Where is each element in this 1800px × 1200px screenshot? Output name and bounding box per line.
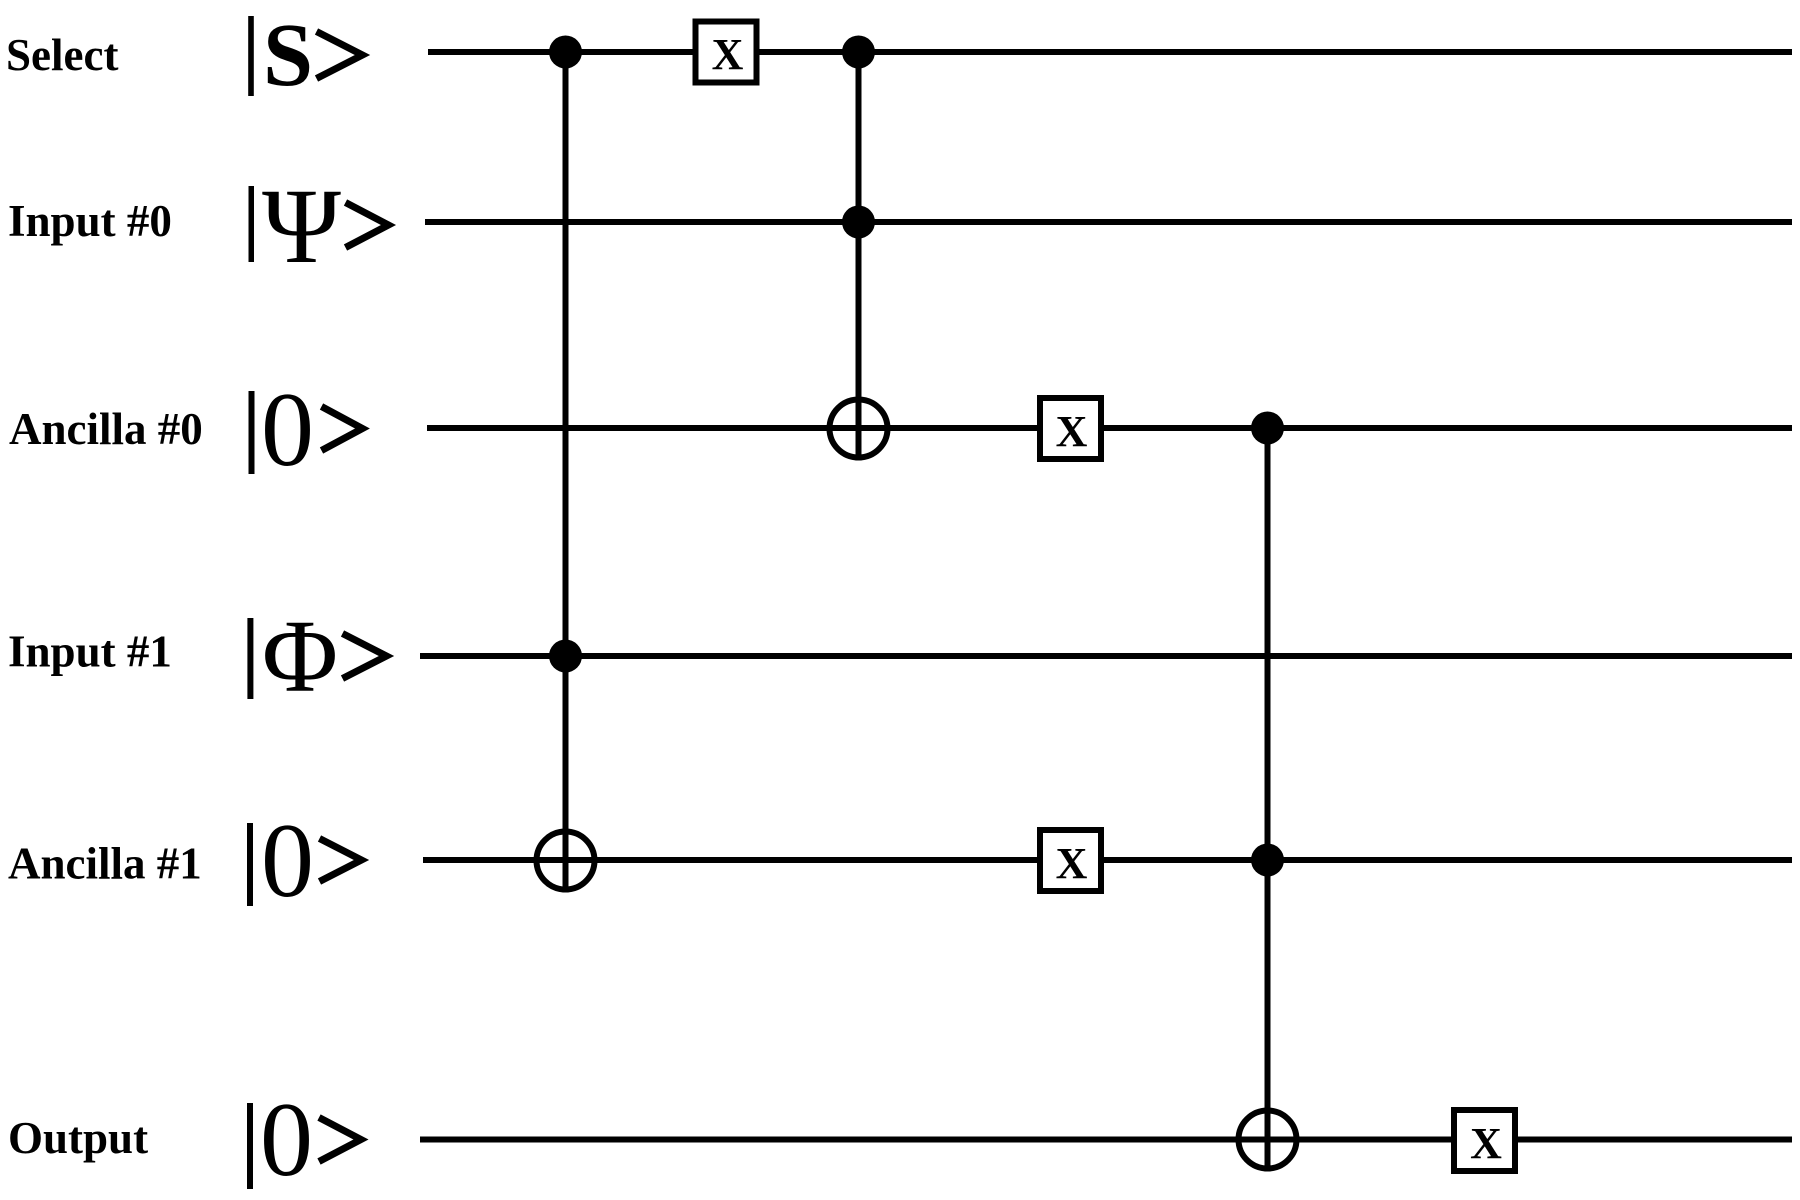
ket |0> output bar bbox=[247, 1103, 253, 1189]
wire q5 Output bbox=[420, 1137, 1792, 1143]
ket |Phi> bar bbox=[247, 618, 253, 699]
wire q1 Input #0 bbox=[425, 219, 1792, 225]
ket |0> ancilla1 bar bbox=[247, 823, 253, 906]
svg-text:Select: Select bbox=[6, 30, 118, 80]
X gate box on Output bbox=[1454, 1110, 1515, 1171]
X gate box on Ancilla #0 bbox=[1040, 398, 1101, 459]
wire q4 Ancilla #1 bbox=[423, 857, 1792, 863]
X gate box on Ancilla #1 bbox=[1040, 830, 1101, 891]
CNOT target on Ancilla #0 bbox=[830, 400, 888, 458]
control dot q3 x565 bbox=[549, 640, 582, 673]
svg-text:Output: Output bbox=[8, 1113, 148, 1163]
ket |Phi> angle bracket bbox=[343, 634, 387, 679]
svg-text:X: X bbox=[1470, 1119, 1502, 1168]
control dot q0 x565 bbox=[549, 36, 582, 69]
svg-text:X: X bbox=[1056, 839, 1088, 888]
svg-text:0: 0 bbox=[260, 1081, 313, 1198]
svg-text:0: 0 bbox=[261, 371, 314, 488]
ket |S> bar bbox=[248, 16, 254, 96]
wire q0 Select bbox=[428, 49, 1792, 55]
svg-text:Ancilla #0: Ancilla #0 bbox=[9, 404, 203, 454]
svg-text:0: 0 bbox=[261, 802, 314, 919]
ket |0> ancilla1 angle bracket bbox=[320, 839, 362, 882]
control dot q4 x1267 bbox=[1251, 844, 1284, 877]
control dot q2 x1267 bbox=[1251, 412, 1284, 445]
ket |0> ancilla0 bar bbox=[249, 391, 255, 474]
svg-text:Input #1: Input #1 bbox=[8, 627, 172, 677]
svg-text:X: X bbox=[1056, 407, 1088, 456]
CNOT target on Output bbox=[1239, 1111, 1297, 1169]
vertical connector V3 controls q2,q4 to target q5 bbox=[1265, 428, 1271, 1172]
vertical connector V1 controls q0,q3 to target q4 bbox=[563, 52, 569, 893]
CNOT target on Ancilla #1 bbox=[537, 832, 595, 890]
svg-text:Φ: Φ bbox=[262, 599, 338, 714]
control dot q0 x858 bbox=[842, 36, 875, 69]
ket |Psi> bar bbox=[249, 186, 255, 262]
wire q3 Input #1 bbox=[420, 653, 1792, 659]
X gate box on Select bbox=[696, 22, 757, 83]
wire q2 Ancilla #0 bbox=[427, 425, 1792, 431]
ket |Psi> angle bracket bbox=[346, 203, 389, 248]
control dot q1 x858 bbox=[842, 206, 875, 239]
ket |S> angle bracket bbox=[317, 32, 363, 79]
svg-text:Ancilla #1: Ancilla #1 bbox=[8, 839, 202, 889]
vertical connector V2 controls q0,q1 to target q2 bbox=[856, 52, 862, 461]
svg-text:Ψ: Ψ bbox=[262, 168, 341, 286]
svg-text:S: S bbox=[263, 6, 313, 105]
ket |0> ancilla0 angle bracket bbox=[322, 407, 363, 451]
svg-text:X: X bbox=[712, 30, 744, 79]
svg-text:Input #0: Input #0 bbox=[8, 196, 172, 246]
ket |0> output angle bracket bbox=[319, 1118, 361, 1162]
